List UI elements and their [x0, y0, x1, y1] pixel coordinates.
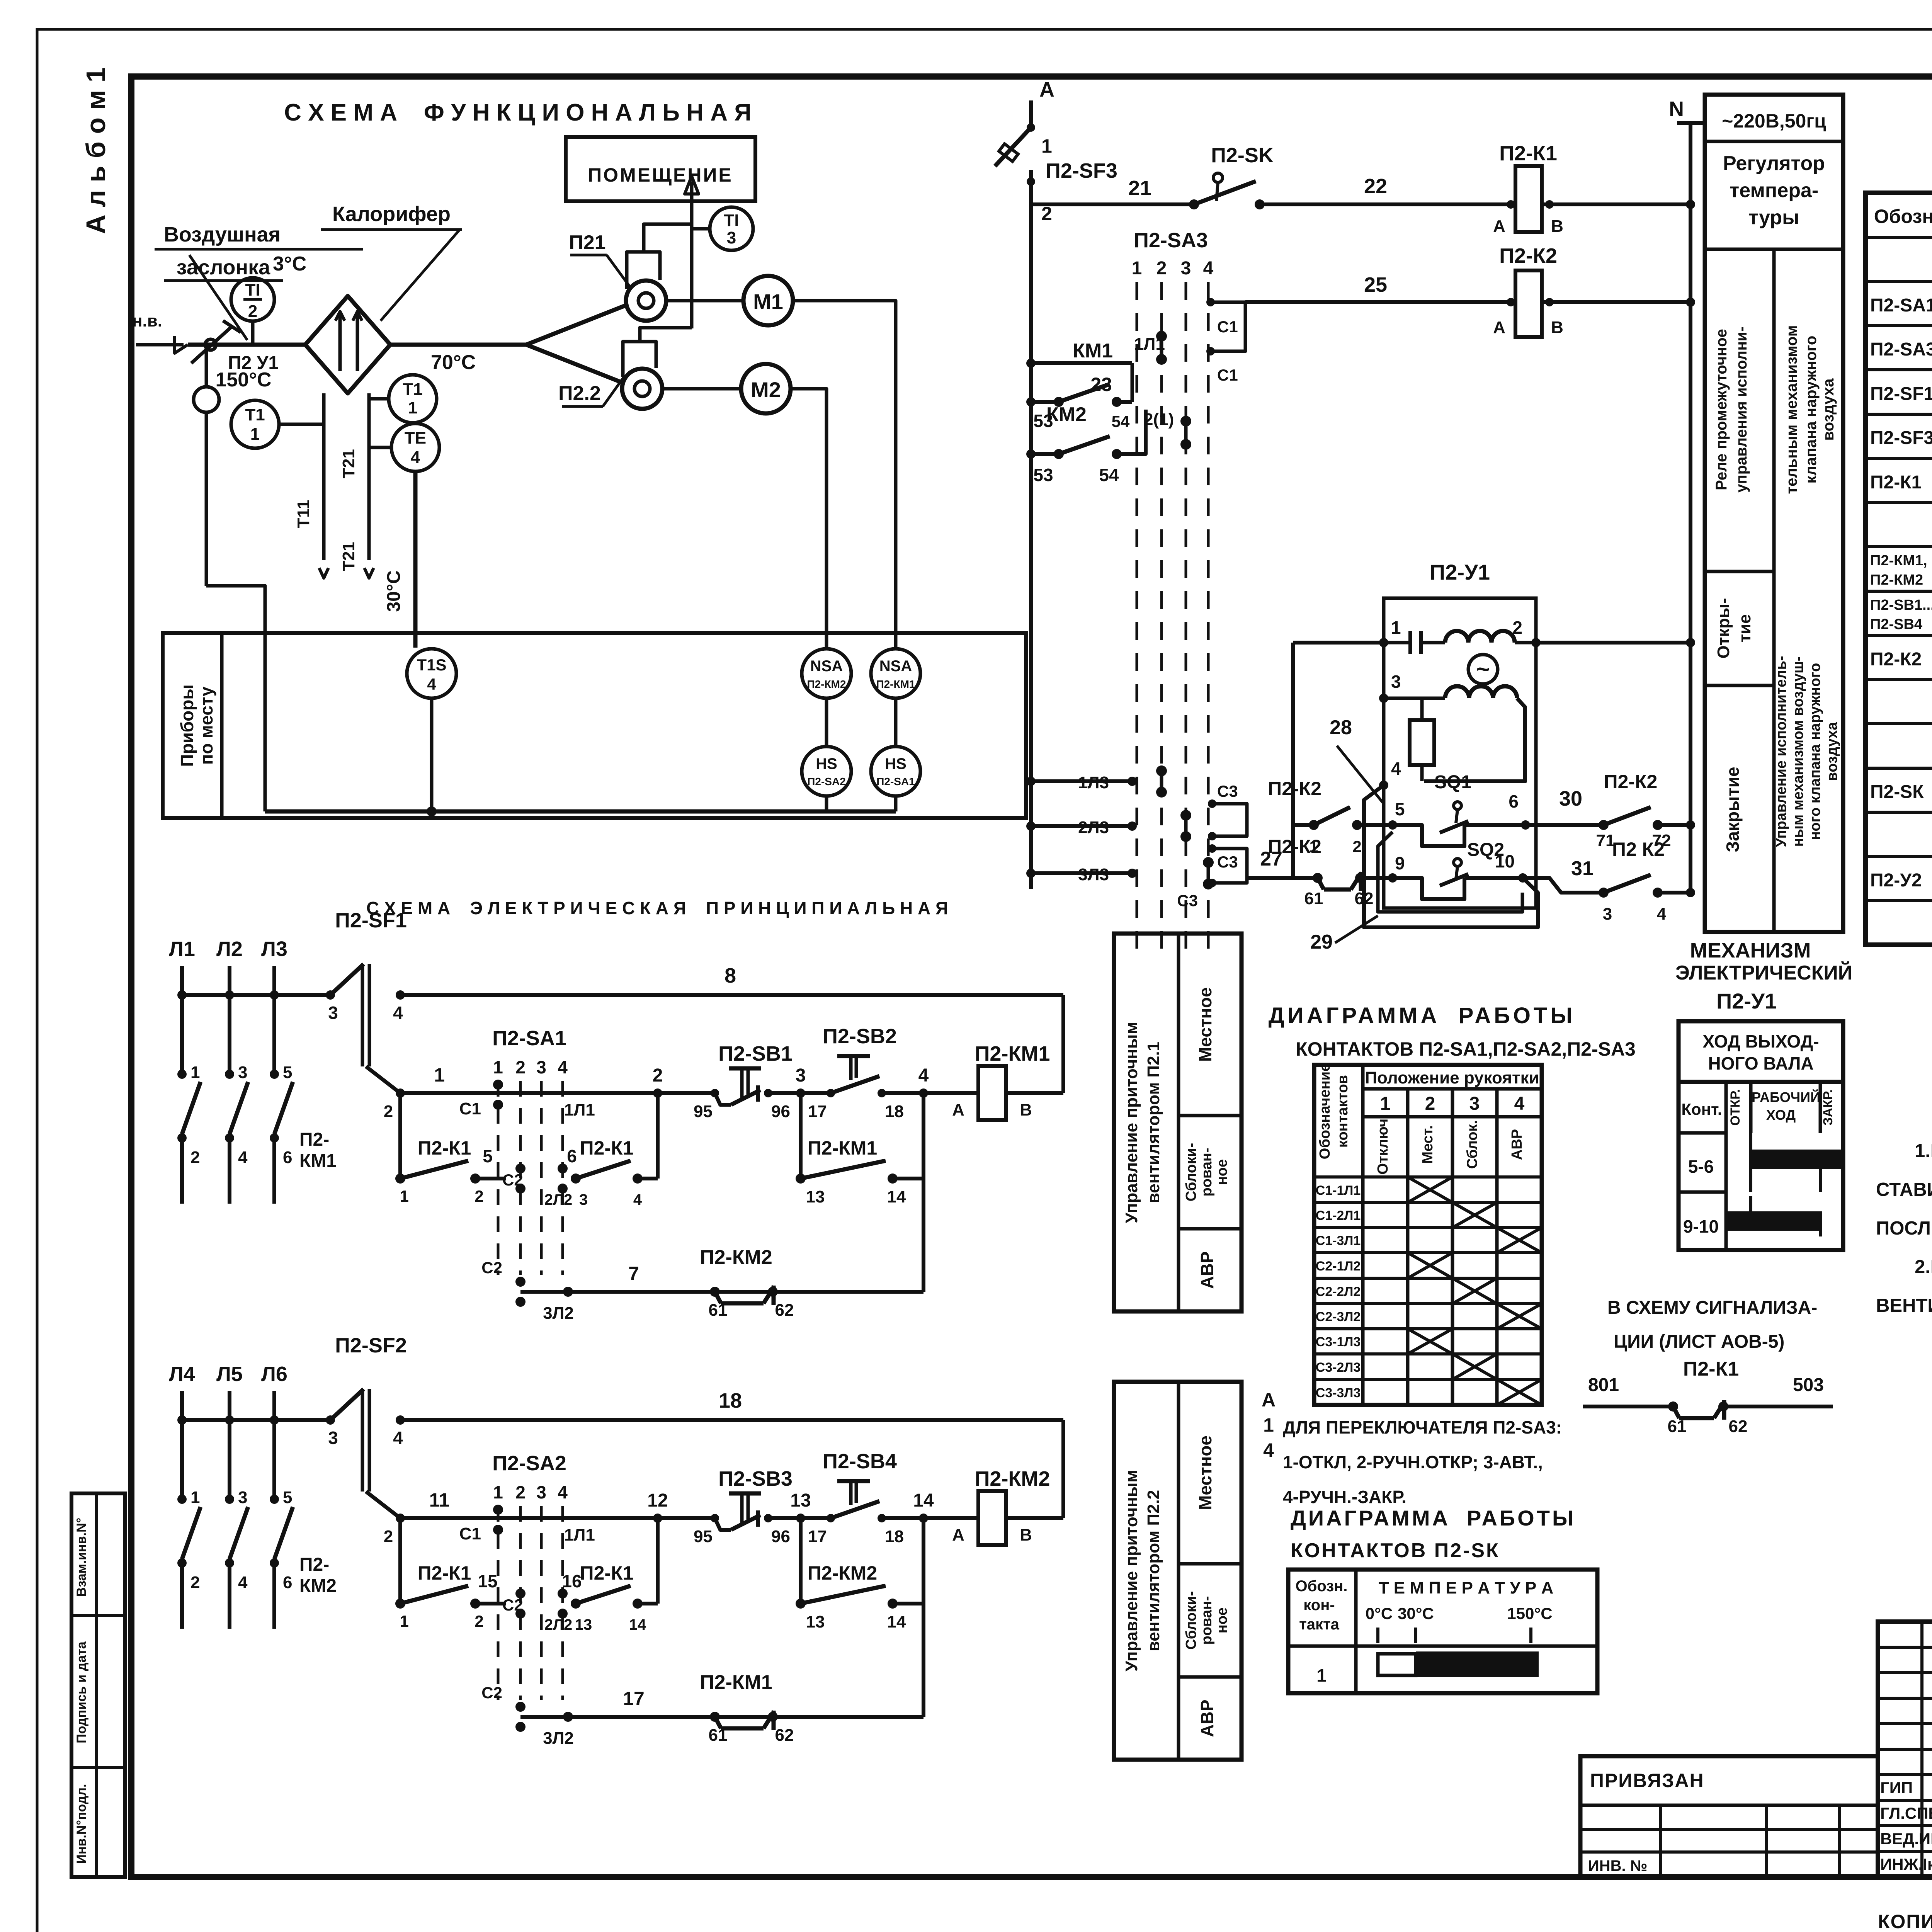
svg-text:Воздушная: Воздушная	[164, 223, 281, 246]
svg-text:Управление исполнитель-: Управление исполнитель-	[1773, 656, 1789, 847]
svg-text:Подпись и дата: Подпись и дата	[74, 1641, 89, 1743]
svg-text:12: 12	[647, 1490, 668, 1511]
X mark	[1497, 1379, 1542, 1405]
svg-text:М1: М1	[753, 289, 783, 314]
svg-text:П2-У1: П2-У1	[1716, 989, 1777, 1013]
svg-text:С3: С3	[1217, 782, 1238, 800]
svg-text:61: 61	[709, 1726, 728, 1745]
svg-text:П2-КМ1: П2-КМ1	[700, 1671, 772, 1694]
svg-text:29: 29	[1310, 931, 1333, 953]
svg-text:Обозначение: Обозначение	[1317, 1063, 1333, 1159]
svg-text:РАБОЧИЙ: РАБОЧИЙ	[1752, 1089, 1820, 1105]
HS P2-SA2	[802, 747, 851, 796]
svg-text:3°С: 3°С	[273, 253, 306, 275]
svg-text:N: N	[1669, 97, 1684, 121]
svg-text:4: 4	[427, 675, 436, 693]
svg-text:Т21: Т21	[339, 542, 358, 571]
svg-text:2Л2: 2Л2	[544, 1616, 573, 1633]
HS P2-SA1	[871, 747, 920, 796]
svg-text:воздуха: воздуха	[1824, 722, 1840, 781]
svg-text:В: В	[1551, 217, 1563, 236]
svg-text:П2-КМ2: П2-КМ2	[807, 678, 846, 690]
svg-text:2: 2	[515, 1057, 526, 1077]
svg-text:КМ1: КМ1	[1073, 340, 1113, 362]
svg-text:14: 14	[887, 1612, 906, 1631]
svg-text:2: 2	[248, 302, 257, 321]
svg-text:2Л3: 2Л3	[1078, 818, 1109, 837]
svg-text:Приборы: Приборы	[177, 684, 197, 767]
svg-text:ное: ное	[1214, 1159, 1230, 1185]
svg-text:Т1: Т1	[403, 380, 422, 399]
svg-text:3: 3	[1603, 905, 1612, 923]
svg-text:С Х Е М А Ф У Н К Ц И О Н А: С Х Е М А Ф У Н К Ц И О Н А Л Ь Н А Я	[284, 99, 752, 126]
svg-text:2: 2	[1512, 617, 1522, 638]
wire 31 P2-K2 3-4	[1523, 878, 1604, 893]
SK bar	[1378, 1654, 1416, 1675]
svg-text:21: 21	[1128, 177, 1151, 200]
svg-text:Сблок.: Сблок.	[1464, 1120, 1481, 1169]
svg-text:3: 3	[579, 1191, 588, 1208]
svg-text:ТЕ: ТЕ	[405, 429, 426, 447]
svg-text:61: 61	[1304, 889, 1323, 908]
C3 bracket upper	[1212, 804, 1247, 836]
svg-text:1: 1	[493, 1482, 503, 1502]
links NSA-HS	[825, 698, 828, 747]
air damper symbol	[205, 339, 216, 350]
X mark	[1408, 1329, 1452, 1354]
svg-text:рован-: рован-	[1199, 1148, 1215, 1196]
svg-text:В: В	[1551, 318, 1563, 337]
svg-text:2: 2	[1156, 258, 1167, 279]
svg-text:НОГО ВАЛА: НОГО ВАЛА	[1708, 1053, 1813, 1073]
svg-text:17: 17	[808, 1102, 827, 1121]
terminal 4	[919, 1088, 928, 1098]
top bus	[182, 1418, 330, 1422]
svg-text:ГЛ.СПЕЦ.: ГЛ.СПЕЦ.	[1880, 1804, 1932, 1822]
svg-text:П2-К1: П2-К1	[1683, 1358, 1739, 1380]
room exhaust line	[690, 182, 694, 328]
svg-text:П2-КМ2: П2-КМ2	[700, 1246, 772, 1269]
svg-text:1Л3: 1Л3	[1078, 773, 1109, 792]
svg-text:С2-1Л2: С2-1Л2	[1316, 1259, 1361, 1274]
svg-text:3: 3	[1391, 672, 1401, 692]
svg-text:3: 3	[238, 1488, 247, 1507]
terminal 4	[919, 1514, 928, 1523]
svg-text:П2-SF3: П2-SF3	[1870, 428, 1932, 448]
row1 wire into P2-U1	[1293, 641, 1384, 645]
table row line	[1866, 590, 1932, 593]
svg-text:П2-К1: П2-К1	[1870, 472, 1922, 493]
svg-text:П2-SF3: П2-SF3	[1046, 159, 1117, 182]
svg-text:ДЛЯ ПЕРЕКЛЮЧАТЕЛЯ П2-SА3:: ДЛЯ ПЕРЕКЛЮЧАТЕЛЯ П2-SА3:	[1283, 1417, 1562, 1437]
svg-text:30°С: 30°С	[1398, 1604, 1434, 1622]
duct branch to room	[644, 224, 692, 252]
bottom rung 17	[563, 1712, 573, 1722]
table row line	[1866, 678, 1932, 681]
svg-text:П2-КМ2: П2-КМ2	[975, 1467, 1050, 1490]
svg-text:С1: С1	[1217, 318, 1238, 336]
svg-text:31: 31	[1571, 857, 1594, 880]
svg-text:по месту: по месту	[196, 686, 216, 765]
X mark	[1408, 1177, 1452, 1202]
X mark	[1408, 1253, 1452, 1278]
svg-text:Местное: Местное	[1195, 987, 1215, 1062]
svg-text:1: 1	[400, 1612, 408, 1630]
svg-text:П2-К1: П2-К1	[418, 1137, 471, 1159]
svg-text:клапана наружного: клапана наружного	[1803, 336, 1820, 484]
svg-text:6: 6	[1509, 791, 1519, 811]
svg-text:9: 9	[1395, 853, 1405, 873]
table row line	[1866, 811, 1932, 814]
svg-text:АВР: АВР	[1197, 1699, 1217, 1737]
svg-text:С1: С1	[459, 1099, 481, 1118]
svg-text:С2-2Л2: С2-2Л2	[1316, 1284, 1361, 1299]
svg-text:4: 4	[411, 448, 420, 467]
svg-text:П2-SВ3: П2-SВ3	[718, 1467, 793, 1490]
svg-text:4: 4	[918, 1065, 929, 1086]
svg-text:управления исполни-: управления исполни-	[1733, 327, 1750, 492]
svg-text:Управление приточным: Управление приточным	[1122, 1470, 1141, 1672]
svg-text:С1-2Л1: С1-2Л1	[1316, 1208, 1361, 1223]
svg-text:62: 62	[775, 1301, 794, 1320]
svg-text:П2-SВ4: П2-SВ4	[823, 1450, 897, 1473]
svg-text:18: 18	[885, 1527, 904, 1546]
table row line	[1866, 413, 1932, 416]
X mark	[1452, 1354, 1497, 1379]
svg-text:П2-К1: П2-К1	[580, 1137, 634, 1159]
svg-text:П2-SВ2: П2-SВ2	[823, 1025, 897, 1048]
svg-text:Регулятор: Регулятор	[1723, 152, 1825, 175]
output shaft travel table	[1679, 1021, 1843, 1082]
svg-text:АВР: АВР	[1197, 1251, 1217, 1289]
svg-text:тие: тие	[1735, 614, 1754, 642]
svg-text:0°С: 0°С	[1366, 1604, 1393, 1622]
svg-text:А л ь б о м 1: А л ь б о м 1	[81, 67, 111, 234]
svg-text:96: 96	[771, 1102, 790, 1121]
SF second pole to rung	[366, 1066, 400, 1093]
bottom wire in box	[265, 810, 896, 814]
table row line	[1866, 722, 1932, 725]
svg-text:3: 3	[328, 1003, 338, 1023]
svg-text:П2-SK: П2-SK	[1211, 144, 1274, 167]
T1S-4 instrument	[407, 649, 456, 698]
svg-text:С1-1Л1: С1-1Л1	[1316, 1183, 1361, 1198]
wire 30 P2-K2 71-72	[1526, 823, 1604, 827]
svg-text:30°С: 30°С	[384, 570, 404, 612]
svg-text:7: 7	[628, 1263, 639, 1284]
svg-text:ЗАКР.: ЗАКР.	[1821, 1089, 1835, 1126]
svg-text:ИНЖ.Iкат: ИНЖ.Iкат	[1880, 1855, 1932, 1873]
opening cell	[1705, 684, 1774, 687]
wire M1 to NSA KM1	[793, 301, 896, 649]
svg-text:Л3: Л3	[261, 937, 287, 961]
svg-text:1.ПЕРЕКЛЮЧАТЕЛЬ РАБОЧЕГО ПРИ: 1.ПЕРЕКЛЮЧАТЕЛЬ РАБОЧЕГО ПРИТОЧНОГО ВЕНТ…	[1915, 1141, 1932, 1162]
svg-text:3Л2: 3Л2	[543, 1304, 574, 1323]
top bus	[182, 993, 330, 997]
X mark	[1497, 1228, 1542, 1253]
svg-text:5: 5	[1395, 799, 1405, 819]
wire 21	[1031, 202, 1194, 206]
svg-text:П2-SА1: П2-SА1	[492, 1027, 566, 1050]
svg-text:1Л1: 1Л1	[1134, 335, 1165, 354]
svg-text:HS: HS	[885, 755, 906, 772]
svg-text:С3: С3	[1217, 853, 1238, 871]
KM2 53-54	[1031, 452, 1059, 456]
table row line	[1866, 767, 1932, 770]
breaker P2-SF3	[995, 128, 1031, 166]
SA table rows	[1314, 1175, 1542, 1179]
control panel box	[1114, 934, 1242, 1311]
T1-1 instrument 150C	[231, 400, 279, 448]
svg-text:П2-SВ1...: П2-SВ1...	[1870, 597, 1932, 613]
svg-text:ДИАГРАММА РАБОТЫ: ДИАГРАММА РАБОТЫ	[1291, 1506, 1576, 1530]
svg-text:Т21: Т21	[339, 449, 358, 478]
svg-text:13: 13	[790, 1490, 811, 1511]
table row line	[1866, 324, 1932, 327]
cell 220V 50Hz	[1705, 140, 1843, 143]
svg-text:П2-К1: П2-К1	[418, 1562, 471, 1584]
svg-text:ным механизмом воздуш-: ным механизмом воздуш-	[1790, 656, 1806, 847]
svg-text:4-РУЧН.-ЗАКР.: 4-РУЧН.-ЗАКР.	[1283, 1487, 1406, 1507]
svg-text:1: 1	[400, 1187, 408, 1205]
TI3 instrument	[710, 207, 753, 250]
svg-text:ЦИИ (ЛИСТ АОВ-5): ЦИИ (ЛИСТ АОВ-5)	[1614, 1332, 1784, 1352]
svg-text:ДИАГРАММА РАБОТЫ: ДИАГРАММА РАБОТЫ	[1269, 1003, 1575, 1028]
svg-text:2: 2	[190, 1148, 200, 1167]
svg-text:1: 1	[408, 398, 417, 417]
wire 27	[1247, 876, 1293, 880]
svg-text:NSA: NSA	[879, 658, 912, 675]
wire to N	[1686, 200, 1695, 209]
svg-text:Закрытие: Закрытие	[1723, 767, 1743, 852]
svg-text:А: А	[1493, 318, 1505, 337]
svg-text:3: 3	[1181, 258, 1191, 279]
svg-text:П2-SА3: П2-SА3	[1870, 339, 1932, 360]
fan P21	[526, 305, 626, 345]
fan P2.2	[526, 345, 622, 383]
svg-text:ВЕНТИЛЯТОРА СТАВИМ В ПОЛ.„А: ВЕНТИЛЯТОРА СТАВИМ В ПОЛ.„АВР”.	[1876, 1295, 1932, 1316]
svg-text:ПОСЛЕ КНОПКОЙ ВКЛЮЧАЕМ РАБОЧ: ПОСЛЕ КНОПКОЙ ВКЛЮЧАЕМ РАБОЧИЙ ВЕНТИЛЯТО…	[1876, 1218, 1932, 1239]
svg-text:54: 54	[1099, 465, 1119, 485]
terminal 3	[796, 1088, 805, 1098]
capacitor	[1384, 641, 1410, 645]
svg-text:Т11: Т11	[294, 500, 313, 528]
svg-text:Т1: Т1	[245, 405, 265, 424]
svg-text:95: 95	[694, 1527, 713, 1546]
svg-text:Т Е М П Е Р А Т У Р А: Т Е М П Е Р А Т У Р А	[1379, 1578, 1554, 1597]
svg-text:1: 1	[1391, 617, 1401, 638]
svg-text:1Л1: 1Л1	[564, 1526, 595, 1544]
wire 18 top	[400, 1418, 1063, 1422]
svg-text:Мест.: Мест.	[1420, 1125, 1436, 1163]
svg-text:туры: туры	[1748, 206, 1799, 229]
branch K1 #1	[398, 1518, 402, 1604]
svg-text:16: 16	[562, 1571, 582, 1591]
svg-text:П2-К1: П2-К1	[1499, 142, 1557, 165]
SK table	[1288, 1570, 1597, 1693]
svg-text:вентилятором П2.2: вентилятором П2.2	[1144, 1490, 1163, 1651]
relay intermediate cell	[1705, 570, 1774, 573]
TI2 instrument	[231, 278, 274, 321]
terminal 3	[796, 1514, 805, 1523]
svg-text:ного клапана наружного: ного клапана наружного	[1807, 663, 1823, 840]
svg-text:5-6: 5-6	[1688, 1156, 1714, 1177]
svg-text:22: 22	[1364, 175, 1387, 198]
svg-text:П2-SА1: П2-SА1	[1870, 295, 1932, 316]
svg-text:Л4: Л4	[169, 1362, 195, 1386]
svg-text:Калорифер: Калорифер	[332, 202, 451, 226]
svg-text:С3-2Л3: С3-2Л3	[1316, 1360, 1361, 1375]
main rung	[400, 1091, 978, 1095]
svg-text:150°С: 150°С	[1507, 1604, 1552, 1622]
svg-text:Сблоки-: Сблоки-	[1183, 1591, 1199, 1650]
damper actuator	[205, 350, 208, 387]
svg-text:3Л2: 3Л2	[543, 1729, 574, 1748]
svg-text:П2-SВ1: П2-SВ1	[718, 1042, 793, 1065]
T11 sensor line	[322, 393, 326, 560]
svg-text:96: 96	[771, 1527, 790, 1546]
svg-text:АВР: АВР	[1509, 1129, 1525, 1160]
svg-text:2: 2	[384, 1102, 393, 1121]
privyazan box	[1580, 1756, 1878, 1877]
svg-text:1: 1	[250, 425, 260, 444]
svg-text:Л1: Л1	[169, 937, 195, 961]
motor symbol	[1468, 655, 1498, 684]
svg-text:П2-: П2-	[299, 1129, 329, 1150]
TE-4 instrument	[391, 423, 439, 471]
svg-text:13: 13	[806, 1187, 825, 1206]
svg-text:11: 11	[429, 1489, 450, 1511]
svg-text:А: А	[1262, 1389, 1276, 1411]
svg-text:70°С: 70°С	[431, 351, 476, 374]
svg-text:П2-КМ1: П2-КМ1	[876, 678, 915, 690]
svg-text:П2-: П2-	[299, 1554, 329, 1575]
svg-text:С2-3Л2: С2-3Л2	[1316, 1310, 1361, 1324]
svg-text:П2-SF2: П2-SF2	[335, 1334, 407, 1357]
svg-text:18: 18	[885, 1102, 904, 1121]
svg-text:П2-SA1: П2-SA1	[876, 776, 915, 787]
svg-text:8: 8	[724, 964, 736, 987]
svg-text:ХОД ВЫХОД-: ХОД ВЫХОД-	[1702, 1031, 1819, 1051]
table row line	[1866, 855, 1932, 858]
svg-text:6: 6	[567, 1146, 577, 1166]
table row line	[1866, 501, 1932, 504]
svg-text:14: 14	[629, 1616, 646, 1633]
svg-text:П2-КМ1: П2-КМ1	[808, 1137, 877, 1159]
svg-text:Управление приточным: Управление приточным	[1122, 1022, 1141, 1223]
wire 22	[1260, 202, 1515, 206]
svg-text:3: 3	[1469, 1094, 1480, 1114]
svg-text:4: 4	[1203, 258, 1214, 279]
svg-text:1: 1	[1041, 135, 1052, 157]
svg-text:30: 30	[1559, 787, 1582, 810]
svg-text:М2: М2	[751, 378, 781, 402]
svg-text:П2-У2: П2-У2	[1870, 870, 1922, 891]
svg-text:13: 13	[806, 1612, 825, 1631]
svg-text:КМ2: КМ2	[299, 1576, 337, 1596]
svg-text:Л5: Л5	[216, 1362, 243, 1386]
svg-text:А: А	[952, 1526, 964, 1544]
svg-text:1: 1	[190, 1063, 200, 1082]
svg-text:1: 1	[493, 1057, 503, 1077]
svg-text:~220В,50гц: ~220В,50гц	[1722, 110, 1826, 132]
X mark	[1452, 1278, 1497, 1304]
kalorifer heater diamond	[305, 296, 390, 393]
svg-text:6: 6	[283, 1148, 292, 1167]
svg-text:4: 4	[238, 1573, 248, 1592]
svg-text:503: 503	[1793, 1375, 1824, 1395]
T1-1 instrument 70C	[389, 375, 437, 423]
svg-text:2(1): 2(1)	[1144, 410, 1174, 429]
svg-text:5: 5	[283, 1488, 292, 1507]
svg-text:П2-КМ2: П2-КМ2	[808, 1562, 877, 1584]
table row line	[1866, 368, 1932, 371]
svg-text:С2: С2	[481, 1259, 502, 1277]
SA3 dots on cols lower	[1156, 765, 1167, 776]
main rung	[400, 1516, 978, 1520]
svg-text:NSA: NSA	[810, 658, 843, 675]
motor M1	[666, 299, 743, 303]
svg-text:Инв.N°подл.: Инв.N°подл.	[74, 1784, 89, 1864]
panel divider	[1772, 249, 1776, 932]
svg-text:25: 25	[1364, 273, 1387, 296]
contacts 1L3 2L3 3L3	[1031, 779, 1132, 783]
svg-text:3: 3	[536, 1057, 546, 1077]
svg-text:вентилятором П2.1: вентилятором П2.1	[1144, 1042, 1163, 1203]
svg-text:1: 1	[1380, 1094, 1391, 1114]
wire 25 row C1 bracket	[1211, 302, 1245, 351]
svg-text:С2: С2	[481, 1684, 502, 1702]
cell temperature regulator	[1705, 248, 1843, 251]
svg-text:Обозн.: Обозн.	[1874, 206, 1932, 227]
svg-text:2: 2	[474, 1612, 483, 1630]
svg-text:Т1S: Т1S	[417, 656, 446, 674]
wire 29 loops	[1364, 785, 1538, 927]
svg-text:14: 14	[913, 1490, 934, 1511]
svg-text:4: 4	[1391, 759, 1401, 779]
wire term2 to N	[1536, 641, 1690, 645]
svg-text:53: 53	[1033, 465, 1053, 485]
svg-text:ХОД: ХОД	[1766, 1107, 1796, 1123]
NSA P2-KM2	[802, 649, 851, 698]
svg-text:С3-3Л3: С3-3Л3	[1316, 1386, 1361, 1400]
row 5-6	[1679, 1190, 1726, 1194]
svg-text:П2-SВ4: П2-SВ4	[1870, 616, 1922, 633]
svg-text:1: 1	[1263, 1414, 1274, 1436]
svg-text:1Л1: 1Л1	[564, 1100, 595, 1119]
table row line	[1866, 457, 1932, 460]
svg-text:4: 4	[1263, 1439, 1274, 1461]
svg-text:ТI: ТI	[724, 211, 739, 230]
svg-text:4: 4	[633, 1191, 642, 1208]
svg-text:П2-SF1: П2-SF1	[335, 909, 407, 932]
svg-text:2: 2	[1425, 1094, 1435, 1114]
table row line	[1866, 545, 1932, 548]
svg-text:1: 1	[1132, 258, 1142, 279]
svg-text:Отключ.: Отключ.	[1375, 1114, 1391, 1174]
svg-text:кон-: кон-	[1303, 1597, 1335, 1614]
svg-text:4: 4	[1657, 905, 1667, 923]
svg-text:С3-1Л3: С3-1Л3	[1316, 1335, 1361, 1349]
svg-text:А: А	[1039, 78, 1054, 101]
X mark	[1452, 1202, 1497, 1228]
SA3 contact dots col2	[1156, 331, 1167, 342]
svg-text:Л6: Л6	[261, 1362, 287, 1386]
svg-text:3: 3	[328, 1428, 338, 1448]
svg-text:13: 13	[575, 1616, 592, 1633]
svg-text:П2-SА3: П2-SА3	[1134, 229, 1208, 252]
control panel box	[1114, 1382, 1242, 1760]
